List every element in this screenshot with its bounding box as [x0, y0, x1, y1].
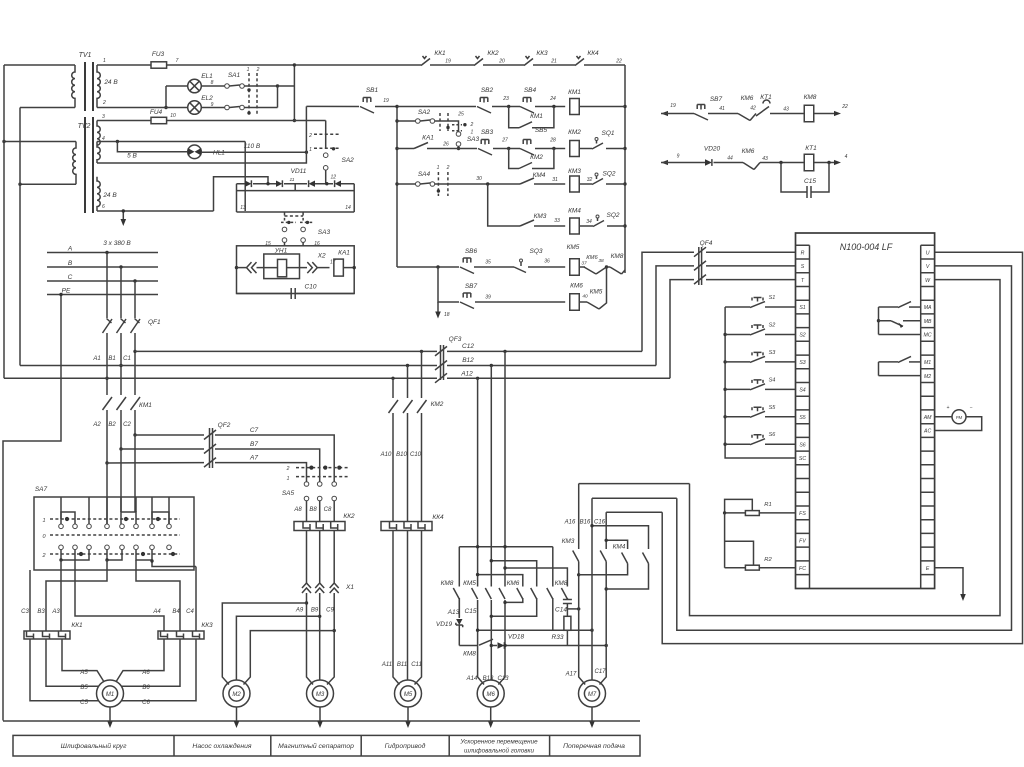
switch SA7 box	[34, 497, 194, 570]
svg-text:5 В: 5 В	[127, 153, 137, 160]
svg-text:R: R	[801, 250, 805, 256]
svg-text:VD18: VD18	[508, 634, 525, 641]
svg-text:FC: FC	[799, 566, 806, 572]
svg-text:SB4: SB4	[524, 87, 537, 94]
svg-text:S4: S4	[799, 388, 805, 394]
wire B7	[121, 448, 204, 450]
svg-text:А1: А1	[92, 356, 100, 362]
svg-text:FS: FS	[799, 511, 806, 517]
svg-text:6: 6	[102, 204, 105, 210]
wire KT1 row	[661, 160, 668, 165]
wire lamp panel right rail	[293, 65, 295, 121]
svg-text:FU4: FU4	[150, 109, 163, 116]
svg-text:М3: М3	[316, 692, 325, 698]
push button SB4	[520, 98, 534, 114]
thermal contact KK2	[474, 56, 483, 66]
svg-text:SB7: SB7	[710, 96, 723, 103]
wire tap4 drop	[244, 142, 246, 212]
switch S1	[725, 306, 750, 308]
svg-text:КК1: КК1	[434, 50, 446, 57]
svg-text:−: −	[970, 405, 973, 411]
wire brake bus L3	[505, 568, 567, 587]
svg-text:33: 33	[554, 218, 560, 224]
resistor R33	[564, 616, 571, 630]
svg-text:1: 1	[247, 67, 250, 73]
wire control feed to SB1	[306, 105, 359, 107]
svg-text:КК2: КК2	[487, 50, 499, 57]
contact KT1 delayed	[756, 100, 770, 116]
wire A16 leg	[578, 484, 580, 549]
motor M2	[223, 680, 250, 707]
wire QF4 to R S T	[706, 252, 796, 279]
svg-text:КМ1: КМ1	[568, 89, 581, 96]
push button SB7 pole2	[694, 105, 708, 121]
push button SB3	[478, 140, 492, 156]
svg-text:А6: А6	[141, 670, 150, 676]
switch SA3	[284, 213, 286, 221]
svg-text:В5: В5	[80, 685, 88, 691]
svg-text:КМ1: КМ1	[530, 113, 543, 120]
svg-text:КМ5: КМ5	[590, 289, 603, 296]
svg-text:А8: А8	[293, 507, 302, 513]
wire KM4b feed	[606, 540, 627, 549]
latch contact KM1	[509, 107, 519, 128]
wire loop P1	[579, 483, 690, 485]
svg-text:31: 31	[552, 177, 558, 183]
svg-text:М7: М7	[588, 692, 597, 698]
svg-text:24: 24	[549, 96, 556, 102]
svg-text:SB7: SB7	[465, 283, 478, 290]
svg-text:С2: С2	[123, 422, 131, 428]
switch S5	[725, 416, 750, 418]
svg-text:С5: С5	[80, 700, 88, 706]
wire B16 leg	[591, 498, 593, 679]
svg-text:С9: С9	[326, 608, 334, 614]
svg-text:2: 2	[102, 100, 106, 106]
svg-text:Гидропривод: Гидропривод	[385, 742, 426, 750]
svg-text:1: 1	[287, 476, 290, 482]
wire U wrap	[662, 252, 1022, 643]
svg-text:X2: X2	[317, 253, 326, 260]
wire M6 phase B	[490, 366, 492, 680]
contactor coil KM3	[570, 176, 580, 192]
svg-text:32: 32	[587, 177, 593, 183]
svg-text:21: 21	[550, 59, 557, 65]
wire loop P2	[592, 497, 677, 499]
svg-text:AC: AC	[923, 429, 931, 435]
svg-text:В4: В4	[172, 609, 180, 615]
capacitor C10	[237, 293, 355, 295]
svg-text:SB6: SB6	[465, 248, 478, 255]
svg-text:М2: М2	[232, 692, 241, 698]
legend table	[13, 735, 640, 756]
svg-text:110 В: 110 В	[244, 143, 261, 150]
wire TV1 secondary top to FU3	[97, 64, 151, 66]
svg-text:23: 23	[502, 96, 509, 102]
diode VD20	[705, 159, 712, 165]
svg-text:С15: С15	[804, 178, 816, 185]
svg-text:КК4: КК4	[432, 514, 444, 521]
wire C7	[135, 434, 204, 436]
svg-text:Шлифовальный круг: Шлифовальный круг	[61, 742, 127, 750]
svg-text:MB: MB	[924, 319, 932, 325]
svg-text:С1: С1	[123, 356, 131, 362]
svg-text:38: 38	[598, 258, 604, 264]
svg-text:шлифовальной головки: шлифовальной головки	[464, 747, 534, 755]
node box left	[235, 266, 238, 269]
wire B12 right	[447, 365, 656, 367]
svg-text:КМ5: КМ5	[463, 580, 476, 587]
svg-text:КК3: КК3	[536, 50, 548, 57]
svg-text:S6: S6	[769, 432, 777, 438]
contact group M1 M2	[878, 362, 880, 376]
switch SA1 pole 2	[201, 107, 224, 109]
svg-text:А4: А4	[152, 609, 161, 615]
wire C12 right	[447, 350, 642, 352]
svg-text:S3: S3	[799, 360, 805, 366]
wire KM8 leg	[458, 547, 460, 587]
wire brake bus L2	[491, 561, 536, 587]
contact KM6 nc 3	[743, 163, 754, 170]
thermal relay KK3	[158, 631, 204, 639]
svg-text:В: В	[68, 260, 73, 267]
svg-text:R2: R2	[764, 557, 772, 563]
contact KM5 no	[587, 302, 599, 309]
svg-text:РМ: РМ	[956, 415, 963, 420]
wire 24V bottom	[97, 210, 214, 212]
svg-text:КТ1: КТ1	[805, 145, 817, 152]
contactor coil KM4	[570, 218, 580, 234]
motor M5	[395, 680, 422, 707]
motor M7	[579, 680, 606, 707]
svg-text:КМ3: КМ3	[534, 213, 547, 220]
svg-text:AM: AM	[923, 415, 932, 421]
svg-text:X1: X1	[345, 584, 354, 591]
capacitor C15	[781, 163, 807, 193]
latch contact KM2	[509, 149, 519, 169]
svg-text:М1: М1	[106, 692, 114, 698]
svg-text:SA2: SA2	[342, 157, 355, 164]
svg-text:В10: В10	[396, 452, 407, 458]
svg-text:S5: S5	[769, 405, 777, 411]
switch S2	[725, 333, 750, 335]
switch SA1 pole 1	[225, 84, 230, 89]
wire brake bottom right	[506, 645, 606, 647]
varistor UH1	[264, 254, 300, 279]
wire B4	[136, 560, 180, 631]
svg-text:43: 43	[762, 156, 768, 162]
svg-text:С14: С14	[555, 607, 567, 614]
thermal relay KK4	[381, 522, 432, 531]
svg-text:SA2: SA2	[418, 109, 431, 116]
limit switch SQ2 pole2	[593, 218, 604, 227]
svg-text:3 х 380 В: 3 х 380 В	[103, 240, 131, 247]
svg-text:13: 13	[240, 205, 246, 211]
svg-text:S2: S2	[769, 322, 776, 328]
wire control right rail	[624, 65, 626, 273]
transformer TV2 winding 5V/110V	[97, 121, 100, 164]
svg-text:MC: MC	[924, 333, 932, 339]
svg-text:2: 2	[470, 122, 474, 128]
switch SA2 control pole	[397, 120, 416, 122]
thermal relay KK2	[294, 522, 345, 531]
contactor coil KM1	[570, 99, 580, 115]
svg-text:КМ2: КМ2	[530, 154, 543, 161]
svg-text:2: 2	[446, 165, 450, 171]
svg-text:Насос охлаждения: Насос охлаждения	[192, 742, 252, 750]
wire A5 B5 C5	[30, 639, 104, 701]
suppressor unit box	[237, 246, 355, 294]
svg-text:КМ4: КМ4	[568, 208, 581, 215]
time relay coil KT1	[804, 154, 814, 171]
svg-text:КМ2: КМ2	[431, 401, 444, 408]
wire FU3 to lamp panel rail	[167, 64, 295, 66]
wire row5	[397, 266, 459, 268]
wire A4	[75, 550, 164, 631]
svg-text:12: 12	[331, 175, 337, 181]
push button SB1	[360, 98, 374, 114]
wire ground rail	[3, 720, 640, 722]
svg-text:КК3: КК3	[201, 622, 213, 629]
contact KM6 nc	[584, 267, 596, 274]
svg-text:EL2: EL2	[201, 95, 213, 102]
svg-text:А3: А3	[51, 609, 60, 615]
svg-text:S: S	[801, 264, 805, 270]
wire QF4 riser C12	[642, 252, 694, 351]
wire KM8prime leg	[552, 547, 554, 587]
resistor R2	[745, 565, 759, 570]
svg-text:QF3: QF3	[449, 336, 462, 343]
wire KM6 pole links	[491, 598, 553, 630]
svg-text:SA3: SA3	[467, 136, 480, 143]
wire lamp return tie	[277, 86, 279, 108]
wire row6 branch	[438, 267, 459, 302]
svg-text:КМ6: КМ6	[570, 283, 583, 290]
switch S3	[725, 361, 750, 363]
connector X1	[302, 583, 311, 593]
svg-text:18: 18	[444, 312, 450, 318]
wire left frame A	[3, 65, 5, 378]
svg-text:КК2: КК2	[343, 513, 355, 520]
wire phase drops to QF1	[107, 253, 135, 319]
svg-text:10: 10	[170, 113, 176, 119]
contact KM8 brake	[453, 588, 459, 599]
svg-text:1: 1	[437, 165, 440, 171]
svg-text:SB5: SB5	[535, 127, 548, 134]
wire row1 to SB2	[397, 106, 476, 108]
svg-text:А10: А10	[380, 452, 392, 458]
svg-text:КК1: КК1	[71, 622, 83, 629]
wire M2 branch	[222, 603, 334, 685]
wire SA2 to SA3 link	[435, 121, 459, 132]
wire S bus	[725, 307, 795, 458]
svg-text:С17: С17	[594, 669, 606, 675]
svg-text:С4: С4	[186, 609, 194, 615]
switch S4	[725, 388, 750, 390]
wire loop P3	[606, 511, 662, 513]
svg-text:КМ6: КМ6	[586, 255, 598, 261]
svg-text:TV1: TV1	[79, 52, 92, 59]
svg-text:2: 2	[256, 67, 260, 73]
wire KM1 outputs	[107, 410, 135, 463]
ground stem M2	[236, 707, 238, 722]
svg-text:SQ2: SQ2	[606, 212, 619, 219]
wire A12 left	[4, 377, 437, 379]
svg-text:КМ3: КМ3	[562, 538, 575, 545]
contactor coil KM6	[570, 294, 580, 311]
svg-text:U: U	[926, 250, 930, 256]
thermal contact KK1	[421, 56, 430, 66]
motor M3	[307, 680, 334, 707]
wire bridge ring	[237, 184, 355, 212]
svg-text:1: 1	[42, 518, 45, 524]
wire brake tap A	[567, 608, 578, 610]
svg-text:24 В: 24 В	[102, 192, 117, 199]
motor M6	[477, 680, 504, 707]
limit switch SQ2 pole1	[592, 176, 603, 185]
svg-text:С10: С10	[410, 452, 422, 458]
wire KM4 output links	[579, 564, 649, 590]
wire QF4 riser B12	[656, 266, 694, 366]
wire B12 left	[20, 365, 437, 367]
svg-text:А5: А5	[79, 670, 88, 676]
svg-text:А7: А7	[249, 455, 258, 462]
svg-text:M1: M1	[924, 360, 931, 366]
svg-text:QF1: QF1	[148, 319, 161, 326]
svg-text:РЕ: РЕ	[62, 288, 71, 295]
wire SA1 pole1 to tie	[244, 85, 277, 87]
relay contact KA1	[397, 148, 414, 150]
svg-text:S1: S1	[769, 295, 776, 301]
svg-text:С3: С3	[21, 609, 29, 615]
svg-text:17: 17	[330, 260, 336, 266]
svg-text:С7: С7	[250, 427, 259, 434]
svg-text:SA5: SA5	[282, 490, 295, 497]
contact KM8 nc	[610, 267, 622, 274]
svg-text:В2: В2	[108, 422, 116, 428]
svg-text:VD11: VD11	[291, 168, 307, 175]
svg-text:SA3: SA3	[318, 229, 331, 236]
svg-text:А14: А14	[466, 676, 478, 682]
wire M6 phase C	[498, 351, 505, 684]
wire M6 phase A	[478, 378, 484, 684]
svg-text:S6: S6	[799, 442, 805, 448]
svg-text:S1: S1	[799, 305, 805, 311]
wire A6 B6 C6	[117, 639, 197, 701]
svg-text:EL1: EL1	[201, 73, 213, 80]
wire C12 left	[135, 350, 437, 352]
svg-text:КМ4: КМ4	[533, 172, 546, 179]
svg-text:КМ5: КМ5	[567, 244, 580, 251]
contact KM6 nc 2	[738, 114, 750, 121]
capacitor C14	[566, 598, 568, 600]
inverter right pin column	[921, 245, 935, 588]
svg-text:М5: М5	[404, 692, 413, 698]
wire R bus	[724, 513, 726, 568]
svg-text:28: 28	[549, 138, 556, 144]
svg-text:С8: С8	[324, 507, 332, 513]
svg-text:А: А	[67, 246, 72, 253]
svg-text:КМ8: КМ8	[611, 253, 624, 260]
svg-text:В11: В11	[397, 662, 407, 668]
wire A3	[60, 560, 62, 631]
svg-text:37: 37	[581, 261, 587, 267]
svg-text:КМ2: КМ2	[568, 129, 581, 136]
svg-text:SA4: SA4	[418, 171, 431, 178]
wire control left rail	[396, 107, 398, 268]
contactor coil KM5	[570, 259, 580, 276]
ground stem M5	[407, 707, 409, 722]
svg-text:SB3: SB3	[481, 129, 494, 136]
thermal relay KK1	[24, 631, 70, 639]
switch SA4	[397, 183, 416, 185]
svg-text:SB1: SB1	[366, 87, 379, 94]
wire W wrap	[690, 280, 1001, 616]
svg-text:30: 30	[476, 176, 482, 182]
svg-text:SB2: SB2	[481, 87, 494, 94]
svg-text:КМ3: КМ3	[568, 168, 581, 175]
svg-text:Поперечная подача: Поперечная подача	[563, 742, 625, 750]
diode VD18	[498, 642, 505, 648]
wire A2 B2 C2 into SA7	[107, 435, 135, 524]
svg-text:25: 25	[457, 112, 464, 118]
wire QF1 outputs	[107, 333, 135, 395]
wire KM8 row	[661, 111, 668, 116]
wire 110V top	[167, 120, 326, 122]
switch SA3 control	[456, 132, 461, 137]
svg-text:2: 2	[286, 466, 290, 472]
svg-text:SC: SC	[799, 456, 806, 462]
connector X2 right	[300, 267, 308, 269]
svg-text:E: E	[926, 566, 930, 572]
limit switch SQ1	[592, 141, 603, 150]
svg-text:В16: В16	[580, 520, 591, 526]
svg-text:S4: S4	[769, 377, 776, 383]
svg-text:В1: В1	[108, 356, 115, 362]
svg-text:УН1: УН1	[274, 248, 288, 255]
svg-text:27: 27	[501, 138, 508, 144]
svg-text:+: +	[947, 405, 950, 411]
contact KM4 aux	[520, 178, 534, 184]
svg-text:С13: С13	[497, 676, 509, 682]
svg-text:В8: В8	[309, 507, 317, 513]
svg-text:22: 22	[841, 104, 848, 110]
svg-text:35: 35	[485, 260, 491, 266]
svg-text:11: 11	[290, 177, 295, 183]
svg-text:В12: В12	[462, 357, 474, 364]
svg-text:А2: А2	[92, 422, 101, 428]
svg-text:41: 41	[719, 106, 725, 112]
inverter N100-004 LF box	[796, 233, 935, 589]
wire C4	[195, 567, 197, 632]
wire SA2 to bridge terminal	[325, 170, 327, 184]
svg-text:1: 1	[471, 130, 474, 136]
lamp EL1	[166, 85, 188, 87]
svg-text:КМ6: КМ6	[507, 580, 520, 587]
lamp EL2	[97, 107, 188, 109]
svg-text:А13: А13	[447, 609, 460, 616]
svg-text:22: 22	[615, 59, 622, 65]
svg-text:43: 43	[783, 107, 789, 113]
contactor coil KM2	[570, 141, 580, 157]
wire SA7 feed stubs	[61, 497, 169, 524]
wire KK2 to X1	[307, 531, 335, 584]
resistor R1	[745, 511, 759, 516]
thermal contact KK4	[575, 56, 584, 66]
svg-text:39: 39	[485, 295, 491, 301]
wire 24V control bus	[294, 64, 625, 66]
contactor coil KM8	[804, 105, 814, 122]
